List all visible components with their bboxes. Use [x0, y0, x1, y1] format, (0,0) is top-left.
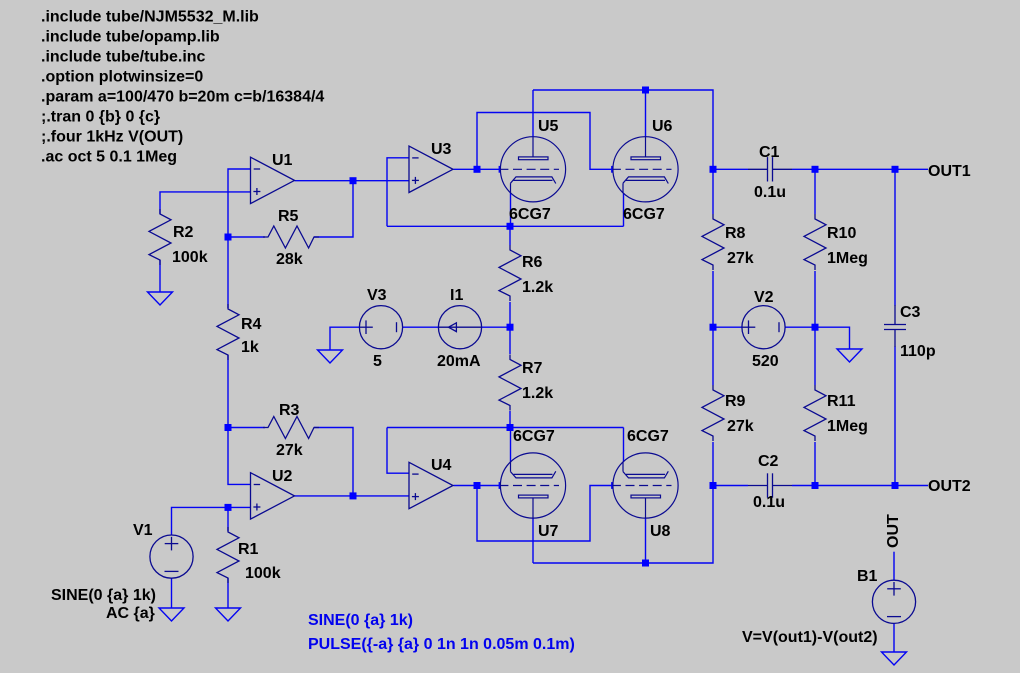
- node OUT1 left: [710, 166, 717, 173]
- wire V3 to I1: [403, 326, 439, 328]
- wire R7 bottom lead to lower rail: [509, 411, 511, 428]
- node R6 R7 I1: [507, 324, 514, 331]
- svg-text:0.1u: 0.1u: [754, 184, 786, 201]
- svg-text:.include tube/opamp.lib: .include tube/opamp.lib: [41, 29, 220, 46]
- svg-text:C2: C2: [758, 453, 779, 470]
- svg-text:V2: V2: [754, 289, 774, 306]
- current source I1: [438, 306, 481, 349]
- svg-text:.include tube/tube.inc: .include tube/tube.inc: [41, 49, 206, 66]
- svg-text:U7: U7: [538, 523, 559, 540]
- resistor R4: [217, 304, 239, 360]
- svg-text:100k: 100k: [245, 565, 281, 582]
- resistor R6: [499, 245, 521, 301]
- wire R11 node to C3 node to OUT2 label: [815, 485, 928, 487]
- wire R4 column between R5 node and R3 node: [227, 237, 229, 308]
- capacitor C1: [748, 157, 792, 181]
- behavioral source B1: [872, 580, 915, 623]
- svg-text:R9: R9: [725, 393, 746, 410]
- wire R5 right end up to U1 output node: [314, 181, 353, 237]
- wire C1 to R10 node: [792, 168, 815, 170]
- node U2 plus: [225, 504, 232, 511]
- node R8 R9 V2: [710, 324, 717, 331]
- node upper cathode rail: [507, 223, 514, 230]
- wire V2 node to ground: [815, 327, 850, 349]
- wire V3 left to ground: [330, 327, 359, 350]
- svg-text:R4: R4: [241, 316, 262, 333]
- wire R3 left lead: [228, 427, 265, 429]
- capacitor C2: [748, 473, 792, 497]
- wire R2 bottom to ground: [159, 260, 161, 292]
- svg-text:R11: R11: [827, 393, 856, 410]
- svg-text:6CG7: 6CG7: [627, 428, 669, 445]
- wire R10 node to C3 node to OUT1 label: [815, 168, 928, 170]
- ground at V2: [837, 349, 862, 362]
- resistor R5: [263, 226, 319, 248]
- node R10 R11 V2: [812, 324, 819, 331]
- svg-text:R10: R10: [827, 225, 856, 242]
- svg-text:1.2k: 1.2k: [522, 279, 553, 296]
- wire U2 plus input node: [228, 506, 251, 508]
- node OUT2 left: [710, 482, 717, 489]
- wire R9 bottom lead: [712, 442, 714, 486]
- node R3 left: [225, 424, 232, 431]
- node lower cathode rail: [507, 424, 514, 431]
- svg-text:SINE(0 {a} 1k): SINE(0 {a} 1k): [51, 587, 156, 604]
- wire R11 top lead: [814, 327, 816, 385]
- svg-text:27k: 27k: [727, 418, 754, 435]
- voltage source V2: [742, 306, 785, 349]
- svg-text:27k: 27k: [727, 250, 754, 267]
- svg-text:6CG7: 6CG7: [509, 206, 551, 223]
- node C3 bottom: [892, 482, 899, 489]
- svg-text:R1: R1: [238, 541, 259, 558]
- svg-text:0.1u: 0.1u: [753, 494, 785, 511]
- svg-text:;.four 1kHz V(OUT): ;.four 1kHz V(OUT): [41, 129, 183, 146]
- wire U4 output to U7 grid: [454, 485, 501, 487]
- wire R6 bottom lead to center node: [509, 302, 511, 327]
- svg-text:.option plotwinsize=0: .option plotwinsize=0: [41, 69, 203, 86]
- wire U2 minus input to R3 node column: [228, 428, 251, 485]
- wire V2 left lead: [713, 326, 742, 328]
- svg-text:OUT: OUT: [885, 514, 902, 548]
- wire B1 top with OUT net label: [893, 552, 895, 581]
- op-amp U1: [251, 157, 295, 203]
- voltage source V1: [150, 535, 193, 578]
- op-amp U4: [409, 462, 453, 508]
- svg-text:U5: U5: [538, 118, 559, 135]
- svg-text:6CG7: 6CG7: [513, 428, 555, 445]
- node top plate rail: [642, 87, 649, 94]
- node bottom plate rail: [642, 560, 649, 567]
- wire U1 output to U3 plus input: [295, 180, 409, 182]
- capacitor C3: [884, 305, 906, 347]
- wire R9 top lead: [712, 327, 714, 385]
- op-amp U2: [251, 473, 295, 519]
- wire B1 bottom to ground: [893, 623, 895, 652]
- svg-text:OUT1: OUT1: [928, 163, 971, 180]
- svg-text:V3: V3: [367, 287, 387, 304]
- svg-text:.ac oct 5 0.1 1Meg: .ac oct 5 0.1 1Meg: [41, 149, 177, 166]
- node C3 top: [892, 166, 899, 173]
- svg-text:U6: U6: [652, 118, 673, 135]
- node R5 left: [225, 234, 232, 241]
- ground at B1: [882, 652, 907, 665]
- wire R1 bottom lead to ground: [227, 578, 229, 608]
- svg-text:AC {a}: AC {a}: [106, 605, 155, 622]
- wire R5 left lead: [228, 236, 265, 238]
- wire U8 plate lead to bottom rail: [645, 518, 647, 563]
- svg-text:5: 5: [373, 353, 382, 370]
- wire grid tie U7-U8 via bottom detour: [477, 486, 612, 542]
- wire grid tie U5-U6 via top detour: [477, 113, 612, 170]
- node U5 grid: [474, 166, 481, 173]
- wire U2 output to U4 plus input: [295, 495, 409, 497]
- ground at R1: [216, 608, 241, 621]
- wire R8 bottom lead to V2 node: [712, 271, 714, 327]
- wire U5 cathode lead down to rail: [510, 193, 512, 226]
- wire U7 cathode lead up to rail: [510, 428, 512, 463]
- wire R3 right end down to U2 output node: [314, 428, 353, 496]
- svg-text:U2: U2: [272, 468, 293, 485]
- triode U7: [499, 453, 565, 518]
- wire bottom plate rail to OUT2 column: [533, 486, 713, 564]
- svg-text:1.2k: 1.2k: [522, 385, 553, 402]
- resistor R8: [702, 214, 724, 270]
- wire R11 bottom lead: [814, 442, 816, 486]
- svg-text:;.tran 0 {b} 0 {c}: ;.tran 0 {b} 0 {c}: [41, 109, 160, 126]
- wire U4 minus feedback to lower rail: [387, 428, 409, 474]
- svg-text:R6: R6: [522, 254, 543, 271]
- svg-text:100k: 100k: [172, 249, 208, 266]
- resistor R3: [263, 417, 319, 439]
- wire U6 plate lead to top rail: [645, 90, 647, 137]
- wire C2 to R11 node: [792, 485, 815, 487]
- triode U5: [499, 137, 565, 202]
- wire U5 plate lead to top rail: [532, 90, 534, 137]
- voltage source V3: [359, 306, 402, 349]
- svg-text:27k: 27k: [276, 442, 303, 459]
- svg-text:U8: U8: [650, 523, 671, 540]
- svg-text:SINE(0 {a} 1k): SINE(0 {a} 1k): [308, 612, 413, 629]
- svg-text:PULSE({-a} {a} 0 1n 1n 0.05m 0: PULSE({-a} {a} 0 1n 1n 0.05m 0.1m): [308, 636, 575, 653]
- svg-text:110p: 110p: [900, 343, 936, 360]
- ground at V1: [159, 608, 184, 621]
- wire R10 top lead: [814, 169, 816, 214]
- svg-text:1Meg: 1Meg: [827, 418, 868, 435]
- svg-text:R2: R2: [173, 224, 194, 241]
- svg-text:V=V(out1)-V(out2): V=V(out1)-V(out2): [742, 629, 878, 646]
- svg-text:C3: C3: [900, 304, 921, 321]
- op-amp U3: [409, 146, 453, 192]
- resistor R7: [499, 355, 521, 411]
- wire top plate rail to OUT1 column: [533, 90, 713, 169]
- wire R7 top lead: [509, 327, 511, 354]
- node U1 output: [350, 177, 357, 184]
- svg-text:B1: B1: [857, 568, 878, 585]
- svg-text:R7: R7: [522, 360, 543, 377]
- node R10 top: [812, 166, 819, 173]
- resistor R2: [149, 209, 171, 265]
- wire U1 plus input to R2 top: [160, 192, 251, 214]
- svg-text:R8: R8: [725, 225, 746, 242]
- svg-text:520: 520: [752, 353, 779, 370]
- svg-text:R3: R3: [279, 402, 300, 419]
- svg-text:.include tube/NJM5532_M.lib: .include tube/NJM5532_M.lib: [41, 9, 259, 26]
- svg-text:I1: I1: [450, 287, 463, 304]
- svg-text:OUT2: OUT2: [928, 478, 971, 495]
- wire V1 bottom to ground: [171, 578, 173, 608]
- wire upper cathode rail: [387, 225, 624, 227]
- resistor R1: [217, 527, 239, 583]
- wire U7 plate lead to bottom rail: [532, 518, 534, 563]
- wire OUT2 row: node to C2: [713, 485, 748, 487]
- resistor R11: [804, 385, 826, 441]
- svg-text:1Meg: 1Meg: [827, 250, 868, 267]
- triode U6: [612, 137, 678, 202]
- wire I1 to center node: [482, 326, 510, 328]
- svg-text:6CG7: 6CG7: [623, 206, 665, 223]
- svg-text:U3: U3: [431, 141, 452, 158]
- wire U3 output to U5 grid: [454, 168, 501, 170]
- svg-text:V1: V1: [133, 522, 153, 539]
- triode U8: [612, 453, 678, 518]
- wire U3 minus feedback to upper cathode rail: [387, 158, 409, 227]
- node U7 grid: [474, 482, 481, 489]
- node U2 output: [350, 492, 357, 499]
- wire V1 top to U2 plus node: [172, 507, 229, 535]
- wire OUT1 row: node to C1: [713, 168, 748, 170]
- resistor R9: [702, 385, 724, 441]
- wire R8 top lead: [712, 169, 714, 214]
- svg-text:C1: C1: [759, 144, 780, 161]
- ground at R2: [148, 292, 173, 305]
- wire C3 top lead: [894, 169, 896, 305]
- wire R6 top lead: [509, 226, 511, 245]
- svg-text:.param a=100/470 b=20m c=b/163: .param a=100/470 b=20m c=b/16384/4: [41, 89, 324, 106]
- wire U6 cathode lead down to rail: [623, 193, 625, 226]
- wire R10 bottom lead: [814, 271, 816, 327]
- svg-text:U1: U1: [272, 152, 293, 169]
- ground at V3: [318, 350, 343, 363]
- node R11 bottom: [812, 482, 819, 489]
- svg-text:20mA: 20mA: [437, 353, 481, 370]
- wire C3 bottom lead: [894, 347, 896, 486]
- svg-text:28k: 28k: [276, 251, 303, 268]
- wire U1 minus input to R5 node column: [228, 169, 251, 237]
- svg-text:R5: R5: [278, 208, 299, 225]
- wire lower cathode rail: [387, 427, 624, 429]
- wire U8 cathode lead up to rail: [623, 428, 625, 463]
- resistor R10: [804, 214, 826, 270]
- wire V2 right lead to R10/R11 node: [785, 326, 815, 328]
- wire R1 top lead: [227, 507, 229, 531]
- svg-text:U4: U4: [431, 457, 452, 474]
- svg-text:1k: 1k: [241, 339, 259, 356]
